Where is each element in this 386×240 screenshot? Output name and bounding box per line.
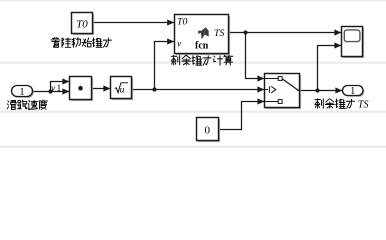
svg-text:T0: T0 bbox=[76, 18, 88, 30]
svg-text:1: 1 bbox=[57, 84, 62, 94]
svg-text:T0: T0 bbox=[177, 16, 187, 27]
svg-text:u: u bbox=[120, 85, 125, 95]
svg-text:TS: TS bbox=[214, 28, 224, 39]
svg-text:TS: TS bbox=[358, 99, 369, 110]
svg-text:v: v bbox=[177, 38, 182, 49]
svg-text:1: 1 bbox=[350, 86, 355, 97]
svg-text:1: 1 bbox=[19, 87, 24, 98]
svg-text:fcn: fcn bbox=[195, 41, 209, 52]
svg-text:0: 0 bbox=[205, 124, 211, 136]
